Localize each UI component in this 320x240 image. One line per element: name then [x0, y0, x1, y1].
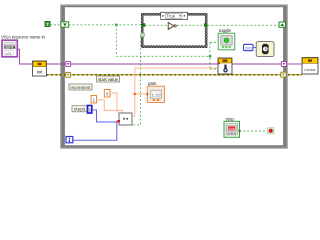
svg-text:init: init	[37, 70, 43, 75]
label increment	[69, 84, 92, 90]
stop boolean control	[224, 121, 240, 137]
svg-text:200: 200	[245, 45, 253, 50]
node junction at toggle branch	[209, 55, 211, 57]
wire: horizontal boolean run below case	[116, 55, 210, 57]
wire: steps to power box	[92, 110, 117, 122]
wire: branch to gain indicator	[135, 93, 147, 95]
wire: 200 to wait	[253, 47, 257, 49]
svg-text:STOP: STOP	[228, 127, 235, 131]
wire: VISA purple to close	[288, 63, 302, 65]
numeric constant 200	[244, 44, 254, 50]
label start value	[97, 76, 120, 82]
svg-text:close: close	[305, 67, 317, 72]
svg-text:VISA: VISA	[4, 46, 15, 50]
case selector terminal	[141, 33, 145, 37]
subVI set gain	[218, 58, 232, 74]
wire: toggle and VI boolean branch	[209, 43, 211, 70]
wire: boolean T constant to left shift register	[50, 24, 61, 26]
numeric constant steps 5	[88, 106, 92, 114]
node orange junction	[133, 93, 136, 96]
subVI init	[33, 61, 47, 76]
label steps	[72, 106, 87, 112]
svg-text:increment: increment	[71, 85, 92, 90]
wire: power box output up to VI	[132, 68, 218, 116]
tunnel error right	[281, 72, 286, 77]
wire: stop to loop condition	[240, 130, 268, 132]
numeric constant increment 1	[91, 96, 97, 104]
case tunnel right	[204, 23, 207, 27]
svg-text:VISA resource name in: VISA resource name in	[1, 35, 45, 40]
while loop border	[60, 5, 287, 149]
tunnel error left	[66, 72, 71, 77]
left shift register	[61, 22, 69, 27]
wire: start value to power box	[110, 93, 117, 113]
svg-text:1: 1	[93, 98, 96, 103]
svg-text:steps: steps	[74, 107, 86, 112]
tunnel purple right	[281, 62, 286, 67]
wire: boolean inside case right	[177, 24, 204, 26]
wire: iteration terminal to power box	[73, 121, 117, 140]
svg-text:True: True	[166, 13, 175, 18]
wire: branch down from junction	[115, 25, 117, 57]
svg-text:0: 0	[106, 92, 109, 97]
svg-text:gain: gain	[148, 81, 157, 86]
coercion dot	[118, 120, 120, 122]
VISA resource name in control	[2, 40, 17, 57]
svg-text:toggle: toggle	[219, 28, 232, 33]
loop condition terminal	[268, 128, 275, 135]
boolean constant T	[45, 21, 50, 27]
case tunnel left	[142, 23, 145, 27]
tunnel purple left	[66, 62, 71, 67]
wire: case to right shift register	[208, 24, 280, 26]
toggle boolean indicator	[218, 33, 235, 50]
subVI close	[302, 58, 318, 75]
numeric constant start value 0	[104, 90, 110, 98]
wire: selector feed vertical	[132, 37, 140, 125]
wire: VISA control to init VI	[18, 49, 33, 64]
svg-text:stop: stop	[226, 116, 235, 121]
svg-text:start value: start value	[98, 77, 119, 82]
wait ms function	[256, 42, 274, 57]
wire: error cluster main run	[47, 74, 303, 76]
svg-text:I/O: I/O	[6, 52, 11, 56]
wire: boolean inside case left	[145, 24, 168, 26]
svg-text:T: T	[46, 22, 49, 27]
gain indicator	[147, 86, 165, 102]
right shift register	[279, 22, 285, 27]
svg-text:1.23: 1.23	[152, 93, 162, 98]
node junction on boolean wire	[115, 24, 117, 26]
case selector label True	[161, 12, 188, 19]
wire: VISA purple main run	[47, 63, 284, 65]
iteration terminal i	[66, 137, 73, 143]
power function box	[119, 113, 132, 125]
wire: left shift register to case structure	[69, 24, 142, 26]
not gate U1	[168, 22, 176, 29]
wire: increment to power box	[97, 100, 123, 113]
case structure border	[141, 13, 208, 48]
